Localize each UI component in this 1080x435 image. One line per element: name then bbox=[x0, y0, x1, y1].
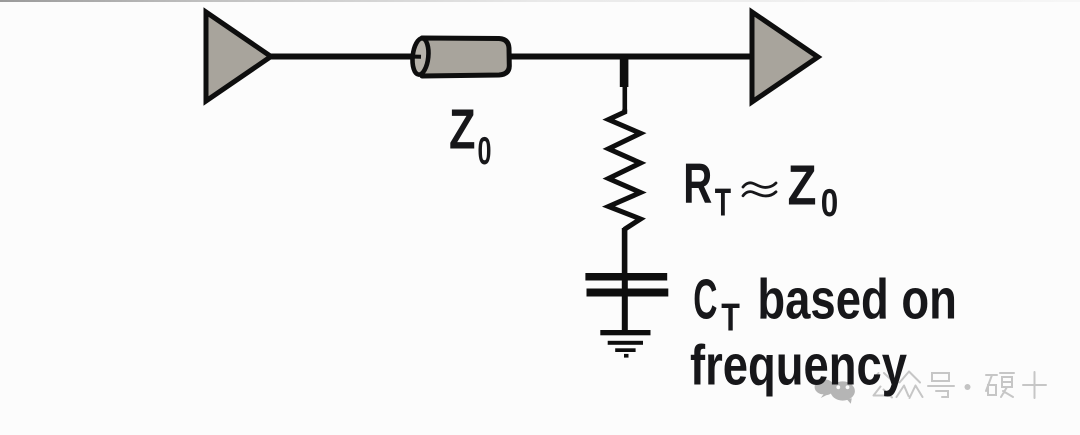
char 公 bbox=[869, 373, 896, 398]
wire: resistor bottom to capacitor bbox=[622, 228, 628, 274]
svg-text:C: C bbox=[693, 268, 717, 332]
char 众 bbox=[897, 372, 923, 399]
watermark icon (chat bubbles) bbox=[815, 379, 855, 403]
char 十 bbox=[1023, 372, 1046, 398]
svg-text:T: T bbox=[715, 182, 731, 225]
node: termination junction stub bbox=[620, 55, 629, 87]
capacitor CT bbox=[585, 273, 668, 333]
svg-text:Z: Z bbox=[449, 97, 476, 161]
label RT ≈ Z0 bbox=[683, 152, 838, 225]
svg-text:R: R bbox=[683, 152, 712, 216]
watermark text 公众号·硬十 (drawn strokes) bbox=[869, 372, 1046, 399]
transmission line left end cap bbox=[411, 38, 430, 76]
svg-text:0: 0 bbox=[821, 182, 839, 225]
char 号 bbox=[928, 373, 954, 397]
receiver buffer (right triangle) bbox=[752, 12, 818, 102]
wire: junction to resistor top bbox=[623, 87, 628, 112]
capacitor center conductor bbox=[622, 273, 628, 333]
svg-text:Z: Z bbox=[788, 154, 817, 218]
wire: driver output to receiver input (horizontal net) bbox=[268, 54, 752, 60]
driver buffer (left triangle) bbox=[206, 12, 271, 101]
capacitor top plate bbox=[585, 273, 667, 281]
resistor RT (zigzag) bbox=[609, 110, 641, 229]
top edge artifact band bbox=[0, 0, 1080, 2]
label CT based on frequency bbox=[690, 268, 957, 398]
middle dot bbox=[965, 384, 971, 390]
ground bbox=[600, 330, 650, 358]
label Z0 bbox=[449, 97, 492, 173]
capacitor bottom plate bbox=[587, 289, 669, 297]
svg-text:based on: based on bbox=[757, 268, 957, 332]
transmission line Z0 (cylinder body) bbox=[409, 38, 509, 76]
char 硬 bbox=[986, 373, 1014, 397]
svg-text:0: 0 bbox=[478, 130, 492, 173]
svg-text:frequency: frequency bbox=[690, 334, 907, 398]
wire stub entering left cap bbox=[409, 55, 421, 59]
